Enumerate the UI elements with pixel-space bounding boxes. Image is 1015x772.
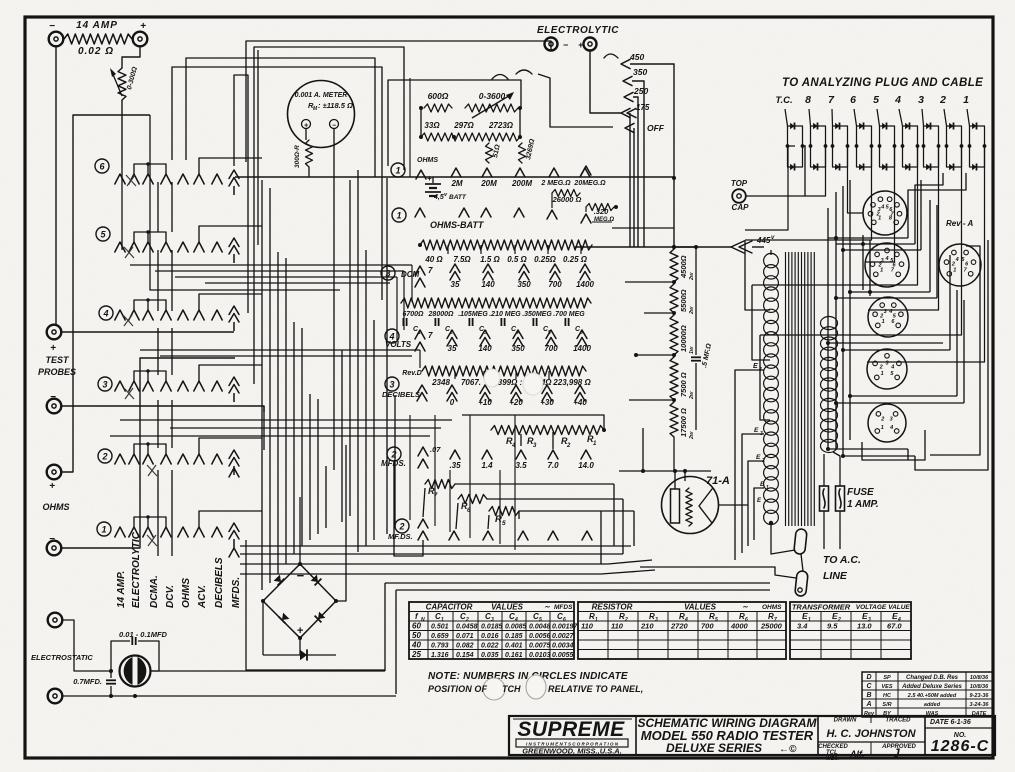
svg-text:ELECTROSTATIC: ELECTROSTATIC xyxy=(31,653,93,662)
svg-text:VES: VES xyxy=(881,684,892,690)
svg-text:.320: .320 xyxy=(594,207,609,216)
svg-text:67.0: 67.0 xyxy=(887,622,902,631)
svg-text:D: D xyxy=(866,674,871,681)
svg-text:0.154: 0.154 xyxy=(456,652,474,659)
svg-text:17500 Ω: 17500 Ω xyxy=(679,408,688,437)
svg-text:110: 110 xyxy=(581,622,594,631)
svg-text:9-23-36: 9-23-36 xyxy=(970,693,990,699)
svg-text:VOLTS: VOLTS xyxy=(385,340,412,349)
svg-text:2w: 2w xyxy=(689,306,695,315)
svg-text:2.5 40.+50M added: 2.5 40.+50M added xyxy=(907,693,957,699)
svg-text:1: 1 xyxy=(766,485,769,491)
svg-text:S/R: S/R xyxy=(882,702,891,708)
svg-text:4: 4 xyxy=(889,425,893,431)
svg-text:3: 3 xyxy=(884,309,887,315)
svg-text:−: − xyxy=(296,568,304,583)
svg-text:25: 25 xyxy=(411,650,421,659)
svg-text:1400: 1400 xyxy=(576,280,594,289)
svg-text:3: 3 xyxy=(102,379,107,389)
svg-text:1286-C: 1286-C xyxy=(931,738,989,755)
svg-text:0.25Ω: 0.25Ω xyxy=(534,255,557,264)
svg-text:3.5: 3.5 xyxy=(515,461,527,470)
svg-text:700: 700 xyxy=(701,622,714,631)
svg-text:+10: +10 xyxy=(478,398,492,407)
svg-text:2348: 2348 xyxy=(431,378,450,387)
svg-text:+30: +30 xyxy=(540,398,554,407)
svg-text:.210 MEG: .210 MEG xyxy=(489,311,521,318)
svg-text:1 AMP.: 1 AMP. xyxy=(847,499,879,510)
svg-text:700: 700 xyxy=(548,280,562,289)
svg-text:14 AMP.: 14 AMP. xyxy=(116,571,127,608)
svg-text:+: + xyxy=(578,40,584,50)
svg-text:.105MEG: .105MEG xyxy=(458,311,488,318)
svg-text:9.5: 9.5 xyxy=(827,622,838,631)
svg-text:700: 700 xyxy=(544,344,558,353)
svg-text:50: 50 xyxy=(412,631,421,640)
svg-text:35: 35 xyxy=(451,280,460,289)
svg-text:E: E xyxy=(753,363,758,370)
svg-text:3.4: 3.4 xyxy=(797,622,808,631)
svg-text:ACV.: ACV. xyxy=(197,585,208,609)
svg-text:10/8/36: 10/8/36 xyxy=(970,684,989,690)
svg-text:28000Ω: 28000Ω xyxy=(428,311,454,318)
svg-text:4: 4 xyxy=(102,308,108,318)
svg-text:2M: 2M xyxy=(450,179,462,188)
svg-text:1400: 1400 xyxy=(573,344,591,353)
svg-text:3-24-36: 3-24-36 xyxy=(970,702,990,708)
svg-text:DECIBELS: DECIBELS xyxy=(382,390,420,399)
svg-text:E: E xyxy=(754,427,759,434)
svg-text:MFDS.: MFDS. xyxy=(231,577,242,608)
svg-text:0.0034: 0.0034 xyxy=(552,643,574,650)
svg-text:+40: +40 xyxy=(573,398,587,407)
svg-text:0.0056: 0.0056 xyxy=(529,633,551,640)
svg-text:1: 1 xyxy=(396,210,401,220)
svg-text:0.0027: 0.0027 xyxy=(552,633,575,640)
svg-text:140: 140 xyxy=(478,344,492,353)
svg-text:14.0: 14.0 xyxy=(578,461,594,470)
svg-text:J: J xyxy=(893,746,900,760)
svg-text:200M: 200M xyxy=(511,179,532,188)
svg-text:4: 4 xyxy=(514,617,518,623)
svg-text:0.071: 0.071 xyxy=(456,633,474,640)
svg-text:VOLTAGE: VOLTAGE xyxy=(856,604,887,611)
svg-text:0.25 Ω: 0.25 Ω xyxy=(563,255,588,264)
svg-text:−: − xyxy=(49,21,55,32)
svg-text:E: E xyxy=(756,454,761,461)
svg-text:1: 1 xyxy=(882,319,885,325)
svg-text:10000Ω: 10000Ω xyxy=(679,325,688,352)
svg-text:2w: 2w xyxy=(689,391,695,400)
svg-text:TO ANALYZING PLUG AND CABL: TO ANALYZING PLUG AND CABLE xyxy=(782,77,983,89)
svg-text:0.401: 0.401 xyxy=(505,643,523,650)
svg-text:350: 350 xyxy=(633,67,647,77)
svg-text:0.01 - 0.1MFD: 0.01 - 0.1MFD xyxy=(119,630,168,639)
svg-text:250: 250 xyxy=(633,86,648,96)
svg-text:450: 450 xyxy=(629,52,644,62)
svg-text:10/8/36: 10/8/36 xyxy=(970,675,989,681)
svg-text:1: 1 xyxy=(441,617,444,623)
svg-text:6: 6 xyxy=(563,617,566,623)
svg-text:−: − xyxy=(563,40,569,50)
svg-text:RESISTOR: RESISTOR xyxy=(592,603,633,612)
svg-text:BATT: BATT xyxy=(449,194,467,201)
svg-text:0.0085: 0.0085 xyxy=(505,624,527,631)
svg-text:25000: 25000 xyxy=(760,622,783,631)
svg-text:1: 1 xyxy=(881,425,884,431)
svg-text:B: B xyxy=(866,692,871,699)
svg-text:6: 6 xyxy=(850,94,856,106)
svg-text:1w: 1w xyxy=(689,346,695,354)
svg-text:40: 40 xyxy=(411,641,421,650)
svg-text:DRAWN: DRAWN xyxy=(834,718,857,724)
svg-text:0.001 A. METER: 0.001 A. METER xyxy=(295,92,348,99)
svg-text:LINE: LINE xyxy=(823,570,848,582)
svg-text:1.316: 1.316 xyxy=(431,652,449,659)
svg-text:CAPACITOR: CAPACITOR xyxy=(426,603,473,612)
svg-text:−: − xyxy=(49,534,55,545)
svg-text:.35: .35 xyxy=(449,461,461,470)
svg-text:2: 2 xyxy=(879,314,883,320)
svg-text:TRANSFORMER: TRANSFORMER xyxy=(792,603,851,612)
svg-text:40 Ω: 40 Ω xyxy=(424,255,443,264)
svg-text:←©: ←© xyxy=(779,744,797,755)
svg-text:E: E xyxy=(760,481,765,488)
svg-text:Changed D.B. Res: Changed D.B. Res xyxy=(906,675,959,681)
svg-text:1: 1 xyxy=(101,524,106,534)
svg-text:4000: 4000 xyxy=(730,622,749,631)
svg-text:0-3600: 0-3600 xyxy=(479,91,506,101)
svg-text:OFF: OFF xyxy=(647,123,665,133)
svg-text:SP: SP xyxy=(883,675,891,681)
svg-text:PROBES: PROBES xyxy=(38,367,76,377)
svg-text:OHMS: OHMS xyxy=(762,604,782,611)
svg-text:110: 110 xyxy=(611,622,624,631)
svg-text:2: 2 xyxy=(761,458,765,464)
svg-text:0.0075: 0.0075 xyxy=(529,643,551,650)
svg-text:3: 3 xyxy=(878,207,881,213)
svg-text:CAP: CAP xyxy=(732,203,750,212)
svg-text:FUSE: FUSE xyxy=(847,487,874,498)
svg-text:223,998 Ω: 223,998 Ω xyxy=(552,378,591,387)
svg-text:5: 5 xyxy=(873,94,879,106)
svg-text:.700 MEG: .700 MEG xyxy=(553,311,585,318)
svg-text:MF.DS.: MF.DS. xyxy=(388,532,413,541)
svg-text:1.5 Ω: 1.5 Ω xyxy=(480,255,500,264)
svg-text:4500Ω: 4500Ω xyxy=(679,255,688,279)
svg-text:R: R xyxy=(495,514,502,525)
svg-text:VALUES: VALUES xyxy=(684,603,717,612)
svg-text:0.082: 0.082 xyxy=(456,643,474,650)
svg-text:35: 35 xyxy=(448,344,457,353)
svg-text:0.0048: 0.0048 xyxy=(529,624,551,631)
svg-text:350: 350 xyxy=(517,280,531,289)
svg-text:0.0103: 0.0103 xyxy=(529,652,551,659)
svg-text:POSITION OF: POSITION OF xyxy=(428,684,488,694)
svg-text:4: 4 xyxy=(894,94,901,106)
svg-text:4: 4 xyxy=(890,364,894,370)
svg-text:4: 4 xyxy=(880,204,884,210)
svg-text:1: 1 xyxy=(881,371,884,377)
svg-text:Rev - A: Rev - A xyxy=(946,219,973,228)
svg-text:TCH: TCH xyxy=(502,684,521,694)
svg-text:0.016: 0.016 xyxy=(481,633,499,640)
svg-text:0.035: 0.035 xyxy=(481,652,499,659)
svg-text:4: 4 xyxy=(884,256,888,262)
svg-text:399Ω :: 399Ω : xyxy=(498,378,523,387)
svg-text:2: 2 xyxy=(398,521,404,531)
svg-text:71-A: 71-A xyxy=(706,475,730,487)
svg-text:N: N xyxy=(421,617,425,623)
svg-text:0.185: 0.185 xyxy=(505,633,523,640)
svg-text:DCMA.: DCMA. xyxy=(149,575,160,608)
svg-text:2: 2 xyxy=(624,617,628,623)
svg-text:297Ω: 297Ω xyxy=(453,121,474,130)
svg-text:−: − xyxy=(50,392,56,403)
svg-text:OHMS: OHMS xyxy=(43,502,70,512)
svg-text:0.501: 0.501 xyxy=(431,624,449,631)
svg-text:VALUE: VALUE xyxy=(888,604,910,611)
svg-text:DECIBELS: DECIBELS xyxy=(214,557,225,608)
svg-text:0: 0 xyxy=(450,398,455,407)
svg-text:.07: .07 xyxy=(430,445,441,454)
svg-text:RELATIVE TO PANEL,: RELATIVE TO PANEL, xyxy=(548,684,643,694)
svg-text:MFDS: MFDS xyxy=(554,604,573,611)
svg-text:4: 4 xyxy=(888,309,892,315)
svg-text:210: 210 xyxy=(640,622,654,631)
svg-text:0.793: 0.793 xyxy=(431,643,449,650)
svg-text:3: 3 xyxy=(885,361,888,367)
svg-text:3: 3 xyxy=(389,379,394,389)
svg-text:DCV.: DCV. xyxy=(165,585,176,608)
svg-text:TRACED: TRACED xyxy=(886,718,912,724)
svg-text:Rev.D: Rev.D xyxy=(402,370,421,377)
svg-text:2720: 2720 xyxy=(670,622,689,631)
svg-text:13.0: 13.0 xyxy=(857,622,872,631)
svg-text:2: 2 xyxy=(939,94,946,106)
svg-text:7067.: 7067. xyxy=(461,378,481,387)
svg-text:TOP: TOP xyxy=(731,179,748,188)
svg-text:1.4: 1.4 xyxy=(481,461,493,470)
svg-text:2 MEG.Ω: 2 MEG.Ω xyxy=(540,180,571,187)
svg-text:1: 1 xyxy=(395,165,400,175)
svg-text:350: 350 xyxy=(511,344,525,353)
svg-text:7: 7 xyxy=(428,331,433,340)
svg-text:140: 140 xyxy=(481,280,495,289)
svg-text:Added Deluxe Series: Added Deluxe Series xyxy=(901,684,962,690)
svg-text:1: 1 xyxy=(595,617,598,623)
svg-text:0.0458: 0.0458 xyxy=(456,624,478,631)
svg-text:4,5: 4,5 xyxy=(433,194,444,201)
svg-text:WEC.: WEC. xyxy=(826,756,839,762)
svg-text:7.0: 7.0 xyxy=(547,461,559,470)
svg-text:+20: +20 xyxy=(509,398,523,407)
svg-text:+: + xyxy=(297,625,304,637)
svg-text:4: 4 xyxy=(955,257,959,263)
svg-text:DATE 6-1-36: DATE 6-1-36 xyxy=(930,719,971,726)
svg-text:7500 Ω: 7500 Ω xyxy=(679,372,688,397)
svg-text:6700Ω: 6700Ω xyxy=(402,311,424,318)
svg-text:+: + xyxy=(50,343,56,354)
svg-text:3: 3 xyxy=(491,617,494,623)
svg-text:2: 2 xyxy=(101,451,107,461)
svg-text:3: 3 xyxy=(655,617,658,623)
svg-text:3: 3 xyxy=(890,417,893,423)
svg-text:5: 5 xyxy=(502,520,506,527)
svg-text:600Ω: 600Ω xyxy=(428,91,449,101)
svg-text:2: 2 xyxy=(879,364,883,370)
svg-text:OHMS-BATT: OHMS-BATT xyxy=(430,220,485,230)
svg-text:HC: HC xyxy=(883,693,892,699)
svg-text:: ±118.5 Ω: : ±118.5 Ω xyxy=(318,101,353,110)
svg-text:DELUXE SERIES: DELUXE SERIES xyxy=(666,741,762,755)
svg-text:3: 3 xyxy=(881,258,884,264)
svg-text:0.00197: 0.00197 xyxy=(552,624,578,631)
svg-text:14 AMP: 14 AMP xyxy=(76,20,118,31)
svg-text:5: 5 xyxy=(715,617,718,623)
svg-text:2: 2 xyxy=(566,443,571,449)
svg-text:20M: 20M xyxy=(480,179,497,188)
svg-text:2: 2 xyxy=(465,617,469,623)
svg-text:H. C. JOHNSTON: H. C. JOHNSTON xyxy=(826,728,916,740)
svg-text:ELECTROLYTIC: ELECTROLYTIC xyxy=(131,531,142,608)
svg-text:+: + xyxy=(427,174,432,183)
svg-text:Alf.: Alf. xyxy=(849,749,865,759)
svg-text:1: 1 xyxy=(808,617,811,623)
svg-text:33Ω: 33Ω xyxy=(424,121,440,130)
svg-text:VALUES: VALUES xyxy=(491,603,524,612)
svg-text:7: 7 xyxy=(428,266,433,275)
svg-text:2: 2 xyxy=(880,417,884,423)
svg-text:2w: 2w xyxy=(689,431,695,440)
svg-text:0.0055: 0.0055 xyxy=(552,652,574,659)
svg-text:T.C.: T.C. xyxy=(775,95,792,106)
svg-text:20MEG.Ω: 20MEG.Ω xyxy=(573,180,606,187)
svg-text:1: 1 xyxy=(953,267,956,273)
svg-text:+: + xyxy=(140,21,146,32)
svg-text:2723Ω: 2723Ω xyxy=(488,121,514,130)
svg-text:2: 2 xyxy=(951,262,955,268)
svg-text:5: 5 xyxy=(539,617,542,623)
svg-text:2w: 2w xyxy=(689,272,695,281)
svg-text:OHMS: OHMS xyxy=(181,578,192,608)
svg-text:GREENWOOD, MISS.,U.S.A.: GREENWOOD, MISS.,U.S.A. xyxy=(522,747,622,756)
svg-text:2: 2 xyxy=(837,617,841,623)
svg-text:5500Ω: 5500Ω xyxy=(679,289,688,312)
svg-text:0.659: 0.659 xyxy=(431,633,449,640)
svg-text:8: 8 xyxy=(805,94,811,106)
svg-text:TO A.C.: TO A.C. xyxy=(823,554,861,566)
svg-text:TEST: TEST xyxy=(45,355,70,365)
svg-text:added: added xyxy=(924,702,941,708)
svg-text:SUPREME: SUPREME xyxy=(517,718,625,741)
svg-text:0.0185: 0.0185 xyxy=(481,624,503,631)
svg-text:7.5Ω: 7.5Ω xyxy=(453,255,471,264)
svg-text:60: 60 xyxy=(412,622,421,631)
svg-text:0.5 Ω: 0.5 Ω xyxy=(507,255,527,264)
svg-text:A: A xyxy=(865,701,871,708)
svg-text:300Ω-R: 300Ω-R xyxy=(294,145,301,168)
svg-text:3: 3 xyxy=(760,431,763,437)
svg-text:+: + xyxy=(49,481,55,492)
svg-text:0.7MFD.: 0.7MFD. xyxy=(73,677,102,686)
svg-text:1: 1 xyxy=(963,94,969,106)
svg-text:0.022: 0.022 xyxy=(481,643,499,650)
svg-text:0.161: 0.161 xyxy=(505,652,523,659)
svg-text:0.02 Ω: 0.02 Ω xyxy=(78,46,114,57)
svg-text:3: 3 xyxy=(918,94,924,106)
svg-text:.350MEG: .350MEG xyxy=(522,311,552,318)
svg-text:ELECTROLYTIC: ELECTROLYTIC xyxy=(537,25,619,36)
svg-text:OHMS: OHMS xyxy=(417,157,438,164)
